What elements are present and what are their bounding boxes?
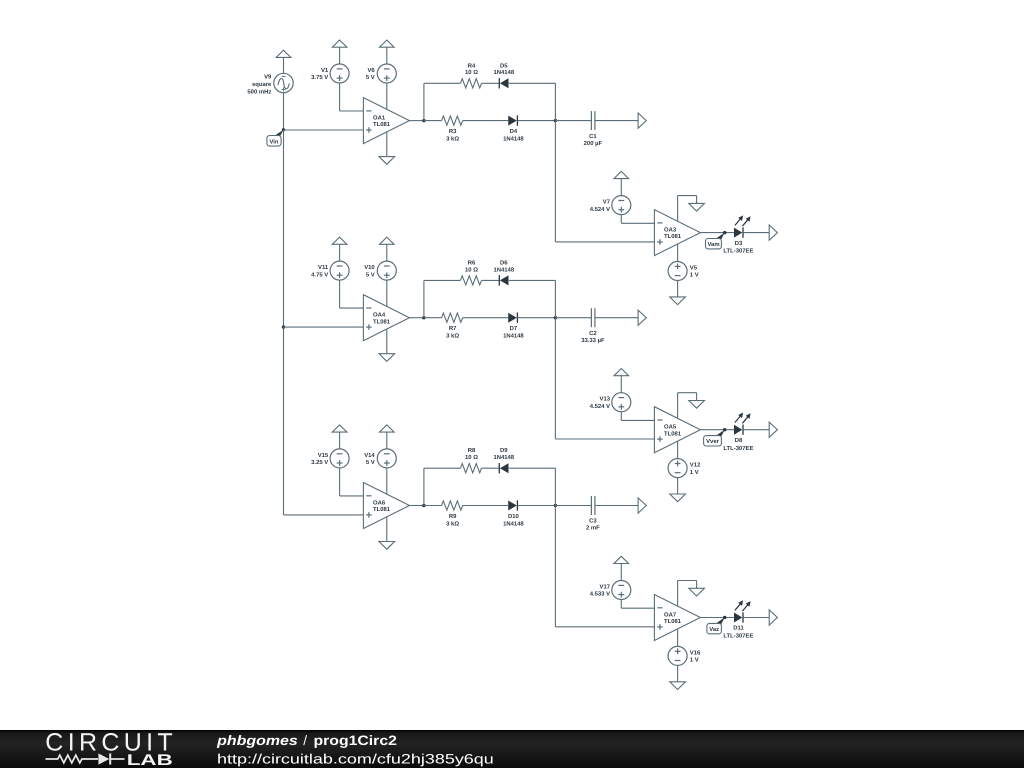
svg-text:4.533 V: 4.533 V [590, 591, 610, 598]
svg-text:D5: D5 [500, 62, 508, 69]
svg-text:OA1: OA1 [373, 114, 386, 121]
wire feedback up [423, 468, 425, 505]
svg-text:V9: V9 [264, 73, 272, 80]
wire V14 to V+ pin [386, 468, 388, 494]
wire feedback to right vertical [509, 279, 556, 281]
svg-text:TL081: TL081 [664, 618, 682, 625]
wire op-amp output [409, 120, 424, 122]
LED D3 LTL-307EE [723, 215, 753, 254]
wire V6 top stub [386, 47, 388, 64]
wire V10 to V+ pin [386, 280, 388, 306]
wire junction to capacitor [555, 505, 591, 507]
junction feedback node [554, 504, 557, 507]
op-amp OA5 TL081 [654, 407, 700, 453]
wire junction to capacitor [555, 120, 591, 122]
svg-text:1N4148: 1N4148 [503, 520, 524, 527]
svg-text:D10: D10 [508, 513, 520, 520]
svg-text:V6: V6 [367, 67, 375, 74]
wire ground stub [696, 196, 698, 204]
wire feedback resistor to diode [482, 467, 500, 469]
wire V7 top stub [620, 179, 622, 196]
wire diode to junction [518, 317, 556, 319]
svg-text:D3: D3 [735, 240, 743, 247]
wire V+ pin up [677, 196, 679, 222]
svg-text:5 V: 5 V [366, 459, 375, 466]
wire LED to output arrow [744, 617, 770, 619]
power arrow above V7 [614, 171, 629, 178]
voltage source V7 4.524 V [590, 196, 631, 215]
svg-text:V5: V5 [690, 264, 698, 271]
wire ground stub [696, 393, 698, 401]
wire to resistor [424, 505, 442, 507]
svg-text:LTL-307EE: LTL-307EE [723, 633, 753, 640]
wire V1 top stub [339, 47, 341, 64]
svg-text:D8: D8 [735, 437, 743, 444]
capacitor C2 33.33 µF [581, 308, 605, 344]
wire Vin bus to non-inverting input [284, 326, 364, 328]
wire feedback to resistor [424, 279, 461, 281]
svg-text:http://circuitlab.com/cfu2hj38: http://circuitlab.com/cfu2hj385y6qu [217, 751, 494, 766]
svg-text:V1: V1 [321, 67, 329, 74]
wire V16 to ground [677, 665, 679, 681]
wire feedback up [423, 280, 425, 317]
wire feedback to resistor [424, 467, 461, 469]
wire output to LED [700, 617, 734, 619]
voltage source V6 5 V [366, 64, 396, 83]
wire diode to junction [518, 120, 556, 122]
svg-text:Vam: Vam [707, 241, 719, 248]
svg-text:1N4148: 1N4148 [503, 333, 524, 340]
wire junction to capacitor [555, 317, 591, 319]
wire feedback resistor to diode [482, 82, 500, 84]
capacitor C1 200 µF [584, 111, 603, 147]
voltage source V15 3.25 V [311, 449, 349, 468]
wire V17 top stub [620, 564, 622, 581]
wire V11 to inverting input [339, 280, 341, 308]
wire V9 top stub [283, 57, 285, 73]
resistor R7 3 kΩ [442, 313, 463, 339]
power arrow above V13 [614, 369, 629, 376]
ground at OA7 V+ [689, 588, 705, 596]
svg-text:Vver: Vver [706, 438, 719, 445]
junction output node [422, 316, 425, 319]
wire feedback resistor to diode [482, 279, 500, 281]
wire V+ pin up [677, 581, 679, 607]
wire V14 top stub [386, 432, 388, 449]
diode D4 1N4148 [503, 115, 524, 142]
CircuitLab logo diode [98, 753, 109, 764]
ground below V12 [670, 494, 686, 502]
wire to resistor [424, 120, 442, 122]
wire V15 to inverting input [339, 468, 341, 496]
voltage source V9 square 500 mHz [247, 73, 293, 95]
svg-text:5 V: 5 V [366, 271, 375, 278]
ground below V5 [670, 297, 686, 305]
wire to inverting input [340, 495, 364, 497]
wire to second-stage non-inverting input [555, 241, 654, 243]
svg-text:R9: R9 [449, 513, 457, 520]
wire V9 to Vin node [283, 93, 285, 130]
wire to inverting input [621, 222, 654, 224]
diode D6 1N4148 [493, 259, 514, 285]
wire V+ to ground right [678, 195, 697, 197]
svg-text:3 kΩ: 3 kΩ [446, 520, 459, 527]
wire V- pin down [677, 629, 679, 647]
svg-text:TL081: TL081 [373, 121, 391, 128]
svg-text:Vaz: Vaz [709, 626, 719, 633]
svg-text:R7: R7 [449, 325, 457, 332]
svg-text:C3: C3 [589, 518, 597, 525]
wire V- pin [386, 329, 388, 354]
svg-text:5 V: 5 V [366, 74, 375, 81]
svg-text:square: square [252, 82, 272, 88]
junction Vin bus row2 tap [282, 325, 285, 328]
svg-text:V13: V13 [600, 396, 611, 403]
svg-text:R8: R8 [468, 447, 476, 454]
svg-text:1 V: 1 V [690, 657, 699, 664]
svg-text:C1: C1 [589, 133, 597, 140]
junction output node [422, 504, 425, 507]
wire LED to output arrow [744, 232, 770, 234]
power arrow above V10 [380, 237, 395, 244]
svg-text:LAB: LAB [127, 752, 173, 768]
wire V11 top stub [339, 244, 341, 261]
svg-text:LTL-307EE: LTL-307EE [723, 248, 753, 255]
wire output to LED [700, 429, 734, 431]
wire output to LED [700, 232, 734, 234]
svg-text:V11: V11 [318, 264, 329, 271]
svg-text:V7: V7 [603, 199, 611, 206]
wire V7 down [620, 215, 622, 224]
svg-text:V17: V17 [600, 583, 611, 590]
svg-text:200 µF: 200 µF [584, 140, 603, 147]
svg-text:33.33 µF: 33.33 µF [581, 337, 605, 344]
wire right vertical down [554, 280, 556, 439]
node flag Vver [704, 428, 727, 446]
svg-text:4.524 V: 4.524 V [590, 403, 610, 410]
voltage source V17 4.533 V [590, 581, 631, 600]
ground at OA5 V+ [689, 401, 705, 409]
wire V+ to ground right [678, 580, 697, 582]
voltage source V5 1 V [668, 262, 699, 281]
svg-text:prog1Circ2: prog1Circ2 [314, 733, 398, 748]
svg-text:V16: V16 [690, 649, 701, 656]
resistor R9 3 kΩ [442, 501, 463, 527]
junction feedback node [554, 316, 557, 319]
power arrow above V9 [276, 50, 291, 57]
svg-text:10 Ω: 10 Ω [465, 454, 478, 461]
output arrow after C2 [638, 310, 646, 325]
wire diode to junction [518, 505, 556, 507]
voltage source V11 4.75 V [311, 261, 349, 280]
wire V- pin [386, 132, 388, 157]
wire V5 to ground [677, 281, 679, 297]
wire resistor to diode [463, 120, 509, 122]
wire to inverting input [621, 607, 654, 609]
LED D8 LTL-307EE [723, 413, 753, 452]
power arrow above V6 [380, 40, 395, 47]
svg-text:OA6: OA6 [373, 499, 386, 506]
svg-text:/: / [303, 733, 307, 748]
svg-text:TL081: TL081 [373, 318, 391, 325]
wire resistor to diode [463, 317, 509, 319]
svg-text:R4: R4 [468, 62, 476, 69]
wire to inverting input [340, 110, 364, 112]
ground below OA1 [379, 157, 395, 165]
wire feedback to resistor [424, 82, 461, 84]
svg-text:Vin: Vin [269, 138, 278, 145]
output arrow after C3 [638, 498, 646, 513]
diode D9 1N4148 [493, 447, 514, 473]
svg-text:R3: R3 [449, 128, 457, 135]
wire ground stub [696, 581, 698, 589]
svg-text:D11: D11 [733, 625, 744, 632]
LED D11 LTL-307EE [723, 600, 753, 639]
wire right vertical down [554, 83, 556, 242]
footer bar [0, 730, 1024, 768]
wire V15 top stub [339, 432, 341, 449]
power arrow above V1 [332, 40, 347, 47]
node flag Vin [267, 130, 284, 146]
wire V- pin down [677, 244, 679, 262]
node flag Vam [706, 231, 727, 249]
svg-text:1N4148: 1N4148 [503, 135, 524, 142]
wire to inverting input [340, 307, 364, 309]
diode D5 1N4148 [493, 62, 514, 88]
wire V+ pin up [677, 393, 679, 419]
svg-text:D9: D9 [500, 447, 508, 454]
wire V1 to inverting input [339, 83, 341, 111]
wire Vin bus lower [283, 327, 285, 515]
op-amp OA6 TL081 [363, 483, 409, 529]
wire V13 down [620, 412, 622, 421]
output arrow Vver [769, 422, 777, 437]
resistor R4 10 Ω [461, 62, 482, 88]
resistor R3 3 kΩ [442, 116, 463, 142]
svg-text:3 kΩ: 3 kΩ [446, 333, 459, 340]
op-amp OA3 TL081 [654, 210, 700, 256]
capacitor C3 2 mF [586, 496, 600, 532]
svg-text:OA4: OA4 [373, 312, 386, 319]
op-amp OA1 TL081 [363, 98, 409, 144]
wire V12 to ground [677, 478, 679, 494]
svg-text:D6: D6 [500, 259, 508, 266]
svg-text:500 mHz: 500 mHz [247, 88, 271, 95]
wire right vertical down [554, 468, 556, 627]
svg-text:V12: V12 [690, 462, 701, 469]
wire feedback to right vertical [509, 82, 556, 84]
wire op-amp output [409, 317, 424, 319]
junction node Vin [282, 128, 285, 131]
svg-text:V10: V10 [364, 264, 375, 271]
svg-text:10 Ω: 10 Ω [465, 266, 478, 273]
power arrow above V14 [380, 425, 395, 432]
svg-text:OA7: OA7 [664, 611, 677, 618]
wire feedback to right vertical [509, 467, 556, 469]
svg-text:TL081: TL081 [664, 233, 682, 240]
wire capacitor to output arrow [595, 317, 638, 319]
wire Vin bus to non-inverting input [284, 129, 364, 131]
voltage source V16 1 V [668, 646, 701, 665]
wire feedback up [423, 83, 425, 120]
svg-text:V14: V14 [364, 452, 375, 459]
svg-text:3.25 V: 3.25 V [311, 459, 328, 466]
svg-text:C2: C2 [589, 330, 597, 337]
svg-text:D7: D7 [510, 325, 518, 332]
junction feedback node [554, 119, 557, 122]
voltage source V13 4.524 V [590, 393, 631, 412]
wire V6 to V+ pin [386, 83, 388, 109]
wire Vin bus upper [283, 130, 285, 327]
wire V10 top stub [386, 244, 388, 261]
svg-text:1N4148: 1N4148 [493, 454, 514, 461]
wire V- pin [386, 517, 388, 542]
wire LED to output arrow [744, 429, 770, 431]
svg-text:LTL-307EE: LTL-307EE [723, 445, 753, 452]
wire to resistor [424, 317, 442, 319]
svg-text:2 mF: 2 mF [586, 525, 600, 532]
svg-text:OA5: OA5 [664, 424, 677, 431]
voltage source V10 5 V [364, 261, 396, 280]
voltage source V14 5 V [364, 449, 396, 468]
svg-text:1 V: 1 V [690, 272, 699, 279]
wire resistor to diode [463, 505, 509, 507]
resistor R6 10 Ω [461, 259, 482, 285]
wire Vin bus to non-inverting input [284, 514, 364, 516]
ground at OA3 V+ [689, 203, 705, 211]
wire op-amp output [409, 505, 424, 507]
svg-text:3 kΩ: 3 kΩ [446, 135, 459, 142]
diode D7 1N4148 [503, 313, 524, 340]
wire capacitor to output arrow [595, 120, 638, 122]
op-amp OA7 TL081 [654, 595, 700, 641]
svg-text:10 Ω: 10 Ω [465, 69, 478, 76]
power arrow above V11 [332, 237, 347, 244]
voltage source V1 3.75 V [311, 64, 349, 83]
svg-text:TL081: TL081 [664, 430, 682, 437]
wire V- pin down [677, 441, 679, 459]
wire capacitor to output arrow [595, 505, 638, 507]
diode D10 1N4148 [503, 500, 524, 527]
junction output node [422, 119, 425, 122]
svg-text:D4: D4 [510, 128, 518, 135]
wire V17 down [620, 600, 622, 609]
wire to second-stage non-inverting input [555, 438, 654, 440]
svg-text:1N4148: 1N4148 [493, 69, 514, 76]
op-amp OA4 TL081 [363, 295, 409, 341]
wire V13 top stub [620, 376, 622, 393]
ground below OA6 [379, 542, 395, 550]
svg-text:4.75 V: 4.75 V [311, 271, 328, 278]
svg-text:V15: V15 [318, 452, 329, 459]
ground below V16 [670, 682, 686, 690]
svg-text:3.75 V: 3.75 V [311, 74, 328, 81]
svg-text:1 V: 1 V [690, 469, 699, 476]
svg-text:1N4148: 1N4148 [493, 266, 514, 273]
wire to inverting input [621, 419, 654, 421]
ground below OA4 [379, 354, 395, 362]
svg-text:TL081: TL081 [373, 506, 391, 513]
wire to second-stage non-inverting input [555, 626, 654, 628]
svg-text:4.524 V: 4.524 V [590, 206, 610, 213]
wire V+ to ground right [678, 392, 697, 394]
power arrow above V15 [332, 425, 347, 432]
CircuitLab logo circuit glyph [46, 755, 125, 763]
output arrow Vam [769, 225, 777, 240]
output arrow after C1 [638, 113, 646, 128]
output arrow Vaz [769, 610, 777, 625]
svg-text:phbgomes: phbgomes [216, 733, 298, 748]
voltage source V12 1 V [668, 459, 701, 478]
power arrow above V17 [614, 556, 629, 563]
svg-text:R6: R6 [468, 259, 476, 266]
node flag Vaz [707, 616, 727, 634]
resistor R8 10 Ω [461, 447, 482, 473]
svg-text:OA3: OA3 [664, 226, 677, 233]
